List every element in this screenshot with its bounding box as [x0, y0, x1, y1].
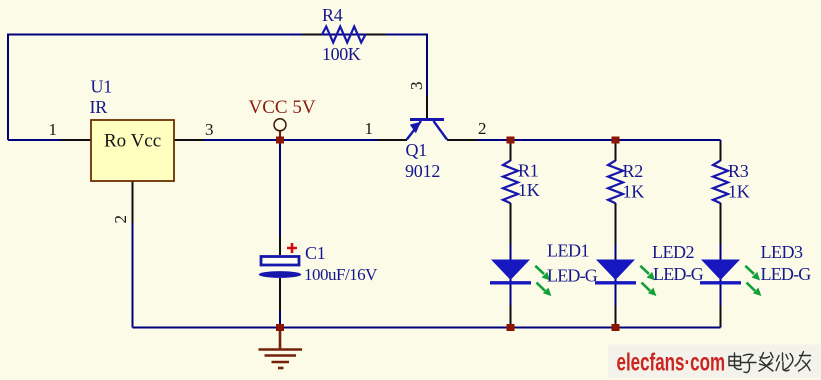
wire U1 pin1 to left rail — [8, 139, 91, 141]
wire VCC / C1 vertical — [279, 140, 281, 255]
junction branch1 bottom — [507, 324, 515, 331]
svg-text:LED3: LED3 — [761, 242, 803, 262]
pin stubs R3 — [720, 142, 722, 161]
svg-text:LED-G: LED-G — [547, 265, 598, 285]
svg-text:Ro Vcc: Ro Vcc — [104, 131, 161, 152]
LED2 diode — [595, 260, 636, 283]
Chinese caption 发 — [759, 353, 773, 372]
svg-text:3: 3 — [205, 120, 214, 139]
svg-text:9012: 9012 — [405, 161, 440, 181]
svg-text:LED-G: LED-G — [761, 264, 812, 284]
wire U1 pin2 down to bottom rail — [132, 181, 134, 328]
elecfans watermark background — [608, 345, 821, 378]
transistor Q1 base bar — [410, 118, 444, 121]
pin stubs (black) R4 — [302, 34, 322, 36]
pin stubs R2 — [615, 142, 617, 161]
wire Q1 collector to LED branches top — [447, 139, 721, 141]
svg-text:1: 1 — [365, 119, 374, 138]
wire branch R1/LED1 — [510, 140, 512, 161]
svg-text:IR: IR — [90, 97, 108, 117]
junction branch2 bottom — [612, 324, 620, 331]
svg-text:U1: U1 — [91, 76, 113, 96]
resistor R3 zigzag — [713, 161, 728, 204]
svg-text:3: 3 — [407, 82, 426, 91]
Chinese caption 子 — [742, 354, 757, 372]
Chinese caption 电 — [729, 353, 742, 369]
svg-text:1: 1 — [49, 120, 58, 139]
svg-text:C1: C1 — [305, 243, 326, 263]
pin stubs LED3 — [720, 306, 722, 327]
pin stub Q1 emitter — [377, 139, 407, 141]
IC U1 body — [91, 120, 174, 181]
svg-text:2: 2 — [478, 119, 487, 138]
pin stubs R1 — [510, 142, 512, 161]
LED1 diode — [490, 260, 531, 283]
svg-text:2: 2 — [111, 215, 130, 224]
svg-text:Q1: Q1 — [406, 140, 428, 160]
resistor R1 zigzag — [503, 161, 518, 204]
svg-text:1K: 1K — [728, 181, 750, 201]
pin stub U1 pin2 — [132, 181, 134, 223]
wire U1 pin3 to Q1 emitter — [174, 139, 407, 141]
VCC power port circle — [274, 119, 286, 131]
junction ground node — [276, 324, 284, 331]
svg-text:VCC 5V: VCC 5V — [249, 97, 316, 118]
pin stub U1 pin3 — [174, 139, 204, 141]
svg-text:LED1: LED1 — [547, 241, 589, 261]
pin stub Q1 collector — [447, 139, 477, 141]
svg-text:R1: R1 — [518, 160, 539, 180]
svg-text:1K: 1K — [623, 181, 645, 201]
svg-text:100uF/16V: 100uF/16V — [304, 265, 378, 284]
C1 plus sign — [287, 243, 297, 253]
junction branch2 top — [612, 137, 620, 144]
wire branch R3/LED3 — [720, 140, 722, 161]
svg-text:R3: R3 — [728, 161, 749, 181]
junction VCC node — [276, 137, 284, 144]
capacitor C1 top plate — [261, 257, 299, 266]
svg-text:elecfans·com: elecfans·com — [617, 348, 726, 376]
Chinese caption 烧 — [776, 353, 793, 371]
svg-text:R4: R4 — [322, 5, 343, 25]
pin stub U1 pin1 — [61, 139, 91, 141]
svg-text:1K: 1K — [518, 180, 540, 200]
wire bottom rail — [133, 327, 721, 329]
svg-text:LED-G: LED-G — [653, 264, 704, 284]
wire branch R2/LED2 — [615, 140, 617, 161]
pin stubs LED2 — [615, 306, 617, 327]
resistor R4 zigzag — [322, 27, 366, 43]
junction branch1 top — [507, 137, 515, 144]
Q1 emitter arrow — [410, 122, 421, 133]
LED3 diode — [700, 260, 741, 283]
Chinese caption 友 — [795, 352, 811, 372]
svg-text:100K: 100K — [322, 44, 361, 64]
C1 bottom plate — [259, 271, 302, 278]
svg-text:R2: R2 — [623, 161, 644, 181]
LED2 emission arrows — [640, 266, 655, 296]
Q1 emitter diagonal — [407, 121, 421, 140]
VCC stub — [279, 131, 281, 140]
LED3 emission arrows — [745, 266, 760, 296]
pin stub Q1 base — [426, 95, 428, 119]
wire top feedback from left rail to R4 and on to Q1 base corner — [8, 35, 427, 141]
pin stub C1 top — [279, 236, 281, 255]
Q1 collector diagonal — [434, 121, 448, 140]
pin stubs LED1 — [510, 306, 512, 327]
svg-text:LED2: LED2 — [652, 242, 694, 262]
ground symbol — [259, 331, 303, 368]
resistor R2 zigzag — [608, 161, 623, 204]
pin stub C1 bottom — [279, 279, 281, 312]
LED1 emission arrows — [535, 266, 550, 296]
